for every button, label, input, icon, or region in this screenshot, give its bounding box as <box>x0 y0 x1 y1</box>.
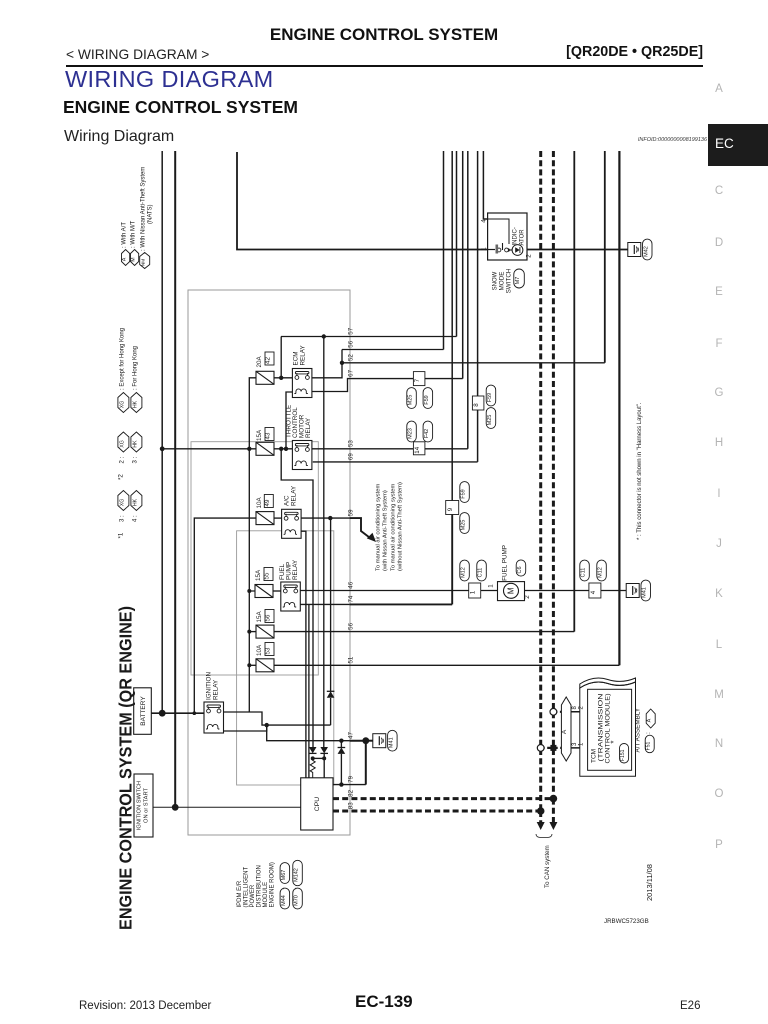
fuse number 42 <box>265 352 274 365</box>
junction: battery riser tap <box>193 711 197 715</box>
fuse 10A [49] <box>256 512 274 525</box>
footer <box>79 1000 211 1012</box>
connector M44 <box>280 888 290 909</box>
wire: diode branch 47-79 b <box>340 754 342 785</box>
fuse 15A [56] <box>256 625 274 638</box>
fuse 15A [43] <box>256 442 274 455</box>
wire: ignition relay contact out <box>224 712 331 725</box>
svg-text:4: 4 <box>481 219 488 223</box>
junction: wire52 tap <box>340 361 344 365</box>
side letters <box>710 83 728 95</box>
diode D2 (47-79) <box>338 748 346 754</box>
svg-text:43: 43 <box>265 432 272 439</box>
wire riser to snow switch pin 4 <box>483 151 487 219</box>
wire: branch to wire 59 <box>330 518 332 691</box>
wire 52 horizontal <box>342 362 605 364</box>
open circle junctions on CAN lines <box>550 708 557 715</box>
svg-text:82: 82 <box>348 789 355 796</box>
junction: CAN L big dot <box>537 807 545 815</box>
wire riser 67 <box>462 151 464 379</box>
wire: thick ground riser <box>365 741 367 785</box>
svg-text:XG: XG <box>119 440 125 448</box>
svg-text:3 :: 3 : <box>132 456 138 463</box>
svg-text:1: 1 <box>488 584 495 588</box>
CAN dashed line H <box>552 151 555 799</box>
svg-text:M12: M12 <box>461 567 467 578</box>
header: engine codes <box>566 44 703 60</box>
svg-text:15A: 15A <box>256 429 263 441</box>
throttle control motor relay <box>292 441 312 470</box>
svg-text:20A: 20A <box>256 355 263 367</box>
wire 47 inner <box>267 725 350 741</box>
svg-text:4: 4 <box>590 590 597 594</box>
ground M42 (snow switch) <box>628 243 641 257</box>
connector M70 <box>293 888 303 909</box>
wire 47 to ground dot <box>350 740 366 742</box>
wire riser 69 (through connector 8) <box>477 151 479 462</box>
svg-text:4 :: 4 : <box>132 515 138 522</box>
CAN arrows down <box>537 822 545 830</box>
CPU box <box>301 778 333 830</box>
subsection <box>64 128 174 146</box>
connector M25 (below 9) <box>460 513 470 534</box>
wire: ignition switch to CPU <box>153 806 301 808</box>
svg-text:XG: XG <box>119 499 125 507</box>
svg-text:RELAY: RELAY <box>305 417 312 438</box>
CAN dashed line L <box>539 151 542 811</box>
svg-text:RELAY: RELAY <box>291 485 298 506</box>
svg-text:F51: F51 <box>646 741 652 750</box>
svg-text:(TRANSMISSION: (TRANSMISSION <box>598 693 605 761</box>
IPDM E/R outer gray box <box>188 290 350 835</box>
svg-text:M67: M67 <box>281 870 287 881</box>
connector F151 <box>620 744 629 764</box>
junction: wire59 tap <box>328 516 332 520</box>
legend 2:XG <box>118 432 129 452</box>
svg-text:(with Nissan Anti-Theft System: (with Nissan Anti-Theft System) <box>383 490 389 571</box>
svg-text:3 :: 3 : <box>119 515 125 522</box>
wire 59: A/C relay out <box>301 517 350 519</box>
svg-text:: With A/T: : With A/T <box>122 222 128 248</box>
svg-text:52: 52 <box>348 354 355 361</box>
junction: ign relay out tap <box>265 723 269 727</box>
wire riser from 20A fuse to wire 57 <box>280 337 282 378</box>
svg-text:POWER: POWER <box>250 884 256 907</box>
fuel pump relay <box>281 582 301 611</box>
svg-text:RELAY: RELAY <box>213 679 220 700</box>
wire: CAN L to TCM connector A <box>541 747 562 749</box>
wire: top feed L to snow mode switch <box>237 152 488 250</box>
svg-text:47: 47 <box>348 731 355 738</box>
svg-text:: For Hong Kong: : For Hong Kong <box>132 346 138 390</box>
fuse number 56 <box>265 610 274 623</box>
svg-text:C11: C11 <box>478 568 484 578</box>
infoid <box>638 137 707 143</box>
fuse 10A [53] <box>256 659 274 672</box>
svg-text:46: 46 <box>348 581 355 588</box>
junction: CAN H big dot <box>550 795 558 803</box>
svg-text:ENGINE ROOM): ENGINE ROOM) <box>270 862 276 907</box>
wire inside snow switch <box>488 219 509 244</box>
junction: ignition switch wire big dot <box>172 804 179 811</box>
svg-text:XG: XG <box>119 401 125 409</box>
svg-text:10A: 10A <box>256 644 263 656</box>
svg-text:HK: HK <box>132 440 138 448</box>
svg-text:(without Nissan Anti-Theft Sys: (without Nissan Anti-Theft System) <box>398 482 404 571</box>
connector M67 <box>280 863 290 884</box>
wire stub fuse56 <box>249 631 256 633</box>
wire: fuel pump to connector 4 <box>525 590 589 592</box>
wire 74: FP relay coil out <box>300 603 349 605</box>
wire stub fuse53 <box>249 664 256 666</box>
fuse 20A [42] <box>256 371 274 384</box>
wire 59 to manual A/C arrow <box>350 518 370 537</box>
wire 57 horizontal <box>281 336 457 338</box>
wire: from wire57 down to diode <box>323 337 325 748</box>
connector C11 <box>477 560 487 581</box>
svg-text:56: 56 <box>348 340 355 347</box>
connector M25 (under 7) <box>407 388 417 409</box>
svg-text:IGNITION SWITCH: IGNITION SWITCH <box>137 781 143 830</box>
svg-text:(NATS): (NATS) <box>148 204 154 224</box>
junction: diode bridge a <box>311 756 315 760</box>
ignition switch box <box>134 774 153 837</box>
svg-text:59: 59 <box>348 509 355 516</box>
wire 69 horizontal <box>313 461 478 463</box>
svg-text:7: 7 <box>414 378 421 382</box>
svg-text:A: A <box>561 729 568 734</box>
wire riser 53 <box>467 151 469 449</box>
svg-text:CPU: CPU <box>314 797 321 811</box>
junction: wire57 tap <box>322 334 326 338</box>
wire: 10A fuse to A/C relay <box>274 517 282 519</box>
connector F51 <box>645 735 654 753</box>
connector 14 <box>413 442 425 455</box>
svg-text:-: - <box>281 888 287 890</box>
svg-text:M: M <box>507 587 516 594</box>
wire: feed riser to fuses 56/53 and ignition relay <box>248 591 250 712</box>
legend 3:XG <box>118 491 129 511</box>
CAN dashed line L tail <box>539 811 542 822</box>
junction: fuse43 out b <box>284 447 288 451</box>
svg-text:15A: 15A <box>255 569 262 581</box>
wire: connector A to TCM pin 1 <box>571 747 588 749</box>
svg-text:IPDM E/R: IPDM E/R <box>237 880 243 907</box>
svg-text:1: 1 <box>481 247 488 251</box>
junction fuse55 feed <box>247 589 251 593</box>
fuse number 53 <box>265 643 274 656</box>
svg-text:To CAN system: To CAN system <box>544 845 551 888</box>
connector M12 <box>460 560 470 581</box>
svg-text:A: A <box>647 718 653 722</box>
wire: vertical into CPU 2 <box>308 604 310 777</box>
section heading black <box>63 97 298 118</box>
svg-text:56: 56 <box>265 614 272 621</box>
svg-text:IGNITION: IGNITION <box>206 672 213 700</box>
svg-text:* : This connector is not show: * : This connector is not shown in "Harn… <box>637 402 643 540</box>
connector M12 right <box>597 560 607 581</box>
svg-text:: With Nissan Anti-Theft Syste: : With Nissan Anti-Theft System <box>141 167 147 251</box>
svg-text:ON or START: ON or START <box>144 788 150 823</box>
connector 1 (fuel pump) <box>469 583 481 598</box>
svg-text:F59: F59 <box>424 395 430 404</box>
wire: diode bridge <box>313 757 325 759</box>
svg-text:79: 79 <box>348 775 355 782</box>
svg-text:To manual air conditioning sys: To manual air conditioning system <box>376 484 382 571</box>
resistor (zigzag) <box>310 758 315 777</box>
svg-text:56: 56 <box>348 622 355 629</box>
svg-text:F59: F59 <box>461 489 467 498</box>
junction: battery wire big dot <box>159 710 166 717</box>
junction fuse56 feed <box>247 630 251 634</box>
svg-text:ENGINE CONTROL SYSTEM (QR ENGI: ENGINE CONTROL SYSTEM (QR ENGINE) <box>116 606 136 930</box>
svg-text:*2: *2 <box>118 474 125 480</box>
svg-text:8: 8 <box>473 403 480 407</box>
TCM outer box with wavy top <box>580 682 636 776</box>
svg-text:1: 1 <box>470 590 477 594</box>
wire: diode to CPU a <box>323 754 325 778</box>
connector C11 right <box>580 560 590 581</box>
svg-text:C6: C6 <box>517 566 523 573</box>
svg-text:83: 83 <box>348 802 355 809</box>
svg-text:69: 69 <box>348 453 355 460</box>
svg-text:RELAY: RELAY <box>300 345 307 366</box>
wire: battery to ignition relay <box>151 712 204 714</box>
svg-text:FUEL PUMP: FUEL PUMP <box>502 545 509 581</box>
fuse number 49 <box>264 495 273 508</box>
wire: connector 4 to ground M41 <box>601 590 626 592</box>
connector 4 (fuel pump) <box>589 583 601 598</box>
wire: battery feed (vertical x=175) <box>174 151 176 807</box>
header: breadcrumb <box>66 47 209 62</box>
connector 8 <box>472 396 484 410</box>
svg-text:F151: F151 <box>620 749 626 761</box>
legend 3:HK <box>131 432 142 452</box>
svg-text:2013/11/08: 2013/11/08 <box>645 864 654 901</box>
svg-text:14: 14 <box>414 446 421 453</box>
wire: A/C relay coil down to CPU <box>301 531 306 778</box>
svg-text:MODULE: MODULE <box>263 882 269 908</box>
junction: snow switch contact <box>506 248 510 252</box>
svg-text:SWITCH: SWITCH <box>506 268 513 293</box>
svg-text:51: 51 <box>348 656 355 663</box>
svg-text:INDIC-: INDIC- <box>513 227 519 245</box>
junction: ground node big dot <box>362 737 369 744</box>
svg-text:55: 55 <box>264 572 271 579</box>
connector M25 (right of 8) <box>486 408 496 429</box>
svg-text:67: 67 <box>348 369 355 376</box>
wire 79 horizontal <box>333 784 366 786</box>
svg-text:ATOR: ATOR <box>520 229 526 246</box>
wire: connector A to TCM pin 2 <box>571 711 588 713</box>
header: page title <box>0 25 768 45</box>
wire 51 horizontal <box>274 664 619 666</box>
junction: *2 wire tap <box>160 446 165 451</box>
connector A hexagon <box>561 697 571 761</box>
connector 7 <box>413 372 425 386</box>
CAN wire 82 dashed <box>333 797 553 800</box>
svg-text:(INTELLIGENT: (INTELLIGENT <box>244 866 250 907</box>
wire: diode branch 47-79 a <box>340 741 342 748</box>
svg-text:2 :: 2 : <box>119 456 125 463</box>
svg-text:15A: 15A <box>256 610 263 622</box>
wire: feed riser to 20A fuse <box>249 378 256 449</box>
wire riser 56 lower <box>573 151 575 632</box>
svg-text:M44: M44 <box>281 895 287 906</box>
wire: ignition relay coil out <box>224 725 267 731</box>
svg-text:NM: NM <box>141 259 146 266</box>
wire 47 ground stub <box>366 740 373 742</box>
svg-text:*1: *1 <box>118 532 125 538</box>
svg-text:M7: M7 <box>515 277 521 285</box>
svg-text:F42: F42 <box>424 429 430 438</box>
fuse number 55 <box>264 568 273 581</box>
svg-text:TCM: TCM <box>590 749 597 763</box>
svg-text:74: 74 <box>348 595 355 602</box>
fuse number 43 <box>265 428 274 441</box>
svg-text:M: M <box>131 257 137 261</box>
wire 56 lower horizontal <box>274 631 574 633</box>
wire: down feed to 15A fuse 55 <box>249 449 255 591</box>
wire: 20A fuse to ECM relay <box>274 377 292 379</box>
wire 74 thick part <box>350 603 453 605</box>
ground M41 (CPU) <box>373 734 386 748</box>
svg-text:M25: M25 <box>487 415 493 426</box>
fuel pump outline <box>498 582 525 601</box>
side tab EC <box>708 124 768 166</box>
junction: wire79 diode tap <box>339 782 343 786</box>
wire: CAN H to TCM connector A <box>553 711 561 713</box>
wire: diode branch up 1 <box>330 698 332 725</box>
diode D4 <box>320 747 328 753</box>
connector F59 (under 7) <box>423 388 433 409</box>
svg-text:MODE: MODE <box>499 272 506 291</box>
svg-text:53: 53 <box>265 647 272 654</box>
connector M7 <box>514 269 525 288</box>
section heading blue <box>65 66 274 93</box>
wire riser 52 <box>604 151 606 363</box>
wire: riser to ECM relay coil <box>286 392 292 449</box>
svg-text:To manual air conditioning sys: To manual air conditioning system <box>391 484 397 571</box>
connector C6 <box>516 560 526 576</box>
inner gray box A (relay group) <box>191 442 318 675</box>
svg-text:F59: F59 <box>487 393 493 402</box>
svg-text:M25: M25 <box>408 395 414 406</box>
battery box <box>134 688 152 735</box>
connector F59 (right of 8) <box>486 385 496 406</box>
connector F59 (above 9) <box>460 482 470 503</box>
svg-text:JRBWC5723GB: JRBWC5723GB <box>604 918 649 925</box>
wire 46: FP relay contact to connector 1 <box>300 590 469 592</box>
svg-text:A/C: A/C <box>284 495 291 506</box>
diode D3 <box>309 747 317 753</box>
svg-text:ECM: ECM <box>293 352 300 366</box>
CAN dashed line H tail <box>552 799 555 822</box>
svg-text:M12: M12 <box>598 567 604 578</box>
svg-text:DISTRIBUTION: DISTRIBUTION <box>257 865 263 907</box>
arrow: to manual air conditioning <box>367 533 376 542</box>
svg-text:HK: HK <box>132 498 138 506</box>
svg-text:2: 2 <box>524 595 531 599</box>
svg-text:RELAY: RELAY <box>292 559 299 580</box>
wire: battery riser to 10A fuse 49 <box>194 518 256 713</box>
inner gray box B (lower relay group) <box>237 531 334 785</box>
wire: connector 1 to fuel pump <box>481 590 498 592</box>
junction: diode bridge b <box>322 756 326 760</box>
A/C relay <box>282 509 302 538</box>
wire riser 74 lower thick <box>451 515 453 605</box>
svg-text:CONTROL MODULE): CONTROL MODULE) <box>605 694 612 764</box>
svg-text:9: 9 <box>447 507 454 511</box>
wire 67: ECM relay coil out <box>312 379 463 392</box>
junction: wire47 diode tap <box>339 739 343 743</box>
wire: fuse 43 to throttle relay <box>274 448 292 450</box>
wire: snow switch pin2 to M42 <box>527 249 628 251</box>
header rule <box>66 65 703 67</box>
svg-text:M25: M25 <box>461 520 467 531</box>
junction: fuse43 out a <box>279 447 283 451</box>
svg-text:M23: M23 <box>408 428 414 439</box>
hexagon A (A/T) <box>646 709 655 728</box>
svg-text:: Except for Hong Kong: : Except for Hong Kong <box>119 328 125 390</box>
wire riser 74 (through connector 9) <box>451 151 453 515</box>
svg-text:2: 2 <box>526 254 533 258</box>
svg-text:M142: M142 <box>294 868 300 882</box>
svg-text:M41: M41 <box>388 737 394 748</box>
legend 4:HK <box>131 491 142 511</box>
wire: left feed 1 (vertical x=162) <box>161 151 163 713</box>
wire: ECM relay contact out <box>312 350 342 378</box>
junction square on CAN crossing <box>550 745 556 751</box>
ground M41 (fuel pump) <box>626 584 639 598</box>
svg-text:53: 53 <box>348 440 355 447</box>
svg-text:M41: M41 <box>642 587 648 598</box>
connector M23 (above 14) <box>407 421 417 442</box>
wire 53 horizontal <box>312 448 468 450</box>
svg-text:HK: HK <box>132 400 138 408</box>
diode D1 (wire59 branch) <box>327 691 335 697</box>
wire riser 51 <box>618 151 620 665</box>
indicator LED <box>512 245 523 256</box>
TCM inner box <box>588 689 632 770</box>
svg-text:M70: M70 <box>294 895 300 906</box>
svg-text:49: 49 <box>264 499 271 506</box>
junction fuse53 feed <box>247 663 251 667</box>
svg-text:42: 42 <box>265 357 272 364</box>
junction: fuse feed <box>247 447 251 451</box>
svg-text:M42: M42 <box>643 246 649 257</box>
svg-text:57: 57 <box>348 327 355 334</box>
wire *2 feed to 15A fuse <box>162 448 256 450</box>
to CAN system <box>536 834 552 838</box>
wire riser 57 <box>456 151 458 337</box>
svg-text:3: 3 <box>572 742 578 746</box>
connector F42 (above 14) <box>423 421 433 442</box>
junction: fuse42 out <box>279 376 283 380</box>
svg-text::: : <box>646 732 652 734</box>
ignition relay <box>204 702 224 733</box>
snow mode switch box <box>488 213 527 260</box>
svg-text:8: 8 <box>572 706 578 710</box>
svg-text:A/T ASSEMBLY: A/T ASSEMBLY <box>635 707 642 752</box>
connector M142 <box>293 860 303 885</box>
fuse 15A [55] <box>255 585 273 598</box>
wire: snow switch pin1 internal <box>488 249 495 251</box>
wire riser 56 upper <box>443 151 445 350</box>
svg-text:*: * <box>610 740 619 743</box>
svg-text:: With M/T: : With M/T <box>131 220 137 248</box>
svg-text:BATTERY: BATTERY <box>140 696 147 726</box>
